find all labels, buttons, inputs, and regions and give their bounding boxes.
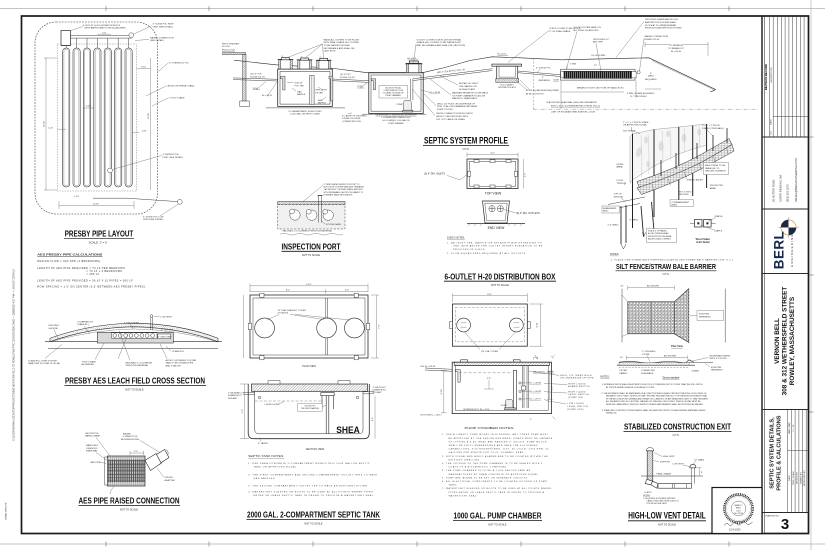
right elevation labels: [530, 371, 555, 401]
svg-text:HIGH VENT: HIGH VENT: [663, 456, 676, 458]
svg-text:TANK.: TANK.: [449, 484, 458, 487]
outlet stub: [363, 392, 374, 394]
svg-text:SCALE: 1" = 5': SCALE: 1" = 5': [89, 241, 108, 245]
svg-text:NOTES: NOTES: [610, 253, 619, 256]
leach field sand outline: [561, 69, 636, 80]
sand box: [278, 205, 345, 229]
fabric trench note box: [647, 229, 677, 243]
randomly oriented fiber mat callout: [86, 444, 99, 453]
svg-text:SECUREABLE AND SHALL BE: SECUREABLE AND SHALL BE: [324, 47, 355, 50]
svg-text:VENT (SEE DETAIL): VENT (SEE DETAIL): [153, 25, 174, 28]
svg-text:2" MIN: 2" MIN: [570, 63, 577, 65]
vent riser small box: [158, 334, 171, 339]
svg-text:1.00': 1.00': [48, 127, 53, 129]
presby pipes (7 laterals): [63, 48, 133, 187]
chamber inlet pipe: [425, 368, 452, 371]
svg-text:6" MIN COVER: 6" MIN COVER: [124, 322, 139, 324]
exit plan pad: [628, 302, 675, 334]
svg-text:4'-10": 4'-10": [441, 389, 443, 395]
svg-text:STAPLE: STAPLE: [715, 215, 724, 218]
svg-text:NOT TO SCALE: NOT TO SCALE: [658, 523, 677, 526]
tank internal labels: [295, 83, 328, 105]
svg-text:35.00': 35.00': [44, 120, 46, 126]
svg-text:4.50': 4.50': [86, 106, 91, 108]
project name block: [762, 409, 809, 411]
groundwater note: [546, 101, 600, 107]
svg-text:NOT TO SCALE: NOT TO SCALE: [491, 284, 510, 287]
svg-text:N.T.S.: N.T.S.: [463, 148, 470, 151]
corrugated pipe body: [108, 456, 146, 486]
vent notes: [643, 495, 680, 505]
svg-text:LOW LIQUID: LOW LIQUID: [567, 403, 584, 405]
callout low vent: [143, 216, 164, 221]
svg-text:VERNON BELL: VERNON BELL: [774, 318, 781, 364]
svg-text:6" LAYER OF CRUSHED: 6" LAYER OF CRUSHED: [342, 114, 367, 117]
corner small dims: [551, 355, 556, 420]
section vent circles: [258, 396, 261, 399]
high vent pipe: [647, 451, 653, 483]
drawing number block: [762, 512, 809, 514]
svg-text:AES PIPE: AES PIPE: [91, 461, 102, 464]
callout raised connection: [150, 36, 174, 42]
svg-text:4" EMBANKMENT: 4" EMBANKMENT: [671, 201, 690, 204]
svg-text:SAND PER 310 CMR 15.240 (A): SAND PER 310 CMR 15.240 (A): [28, 362, 60, 365]
plan knockout tabs: [248, 293, 370, 360]
tank outlet tee: [329, 76, 333, 101]
svg-text:EL. = 30.88: EL. = 30.88: [530, 383, 542, 385]
clean fill over system note: [28, 359, 60, 365]
svg-text:GAS: GAS: [297, 90, 302, 93]
field inner dashed boundary: [58, 44, 137, 191]
svg-text:BERL: BERL: [736, 508, 741, 510]
svg-text:ENTER OR LEAVE SEPTIC TANK IN: ENTER OR LEAVE SEPTIC TANK IN ORDER TO P…: [254, 494, 375, 497]
svg-text:LEVEL SWITCH: LEVEL SWITCH: [567, 406, 588, 408]
svg-text:BAFFLE: BAFFLE: [297, 93, 306, 96]
raised connection circle: [637, 71, 640, 74]
svg-text:2. FLOW EQUALIZERS REQUIRED A: 2. FLOW EQUALIZERS REQUIRED AT ALL OUTLE…: [447, 252, 526, 255]
svg-text:SCH40 @2.1%: SCH40 @2.1%: [250, 76, 265, 78]
svg-text:8" (MIN.): 8" (MIN.): [630, 219, 639, 221]
svg-text:10" (MAX): 10" (MAX): [694, 458, 704, 461]
svg-text:ROWLEY, MASSACHUSETTS: ROWLEY, MASSACHUSETTS: [789, 296, 796, 385]
chamber section body: [452, 362, 551, 413]
svg-text:1.5' OF SYSTEM SAND ON: 1.5' OF SYSTEM SAND ON: [574, 26, 602, 29]
bale end faces: [652, 148, 729, 192]
svg-text:PORT (SEE DETAIL): PORT (SEE DETAIL): [163, 156, 184, 159]
tank plan view inner: [253, 298, 365, 355]
buried pipe horizontal: [658, 484, 692, 489]
svg-text:9": 9": [701, 472, 703, 474]
fabric texture blotches: [635, 128, 701, 167]
svg-text:ASTM C33 PRESBY SAND: ASTM C33 PRESBY SAND: [168, 85, 195, 88]
svg-text:FROM SOIL ABSORPTION SYSTEM: FROM SOIL ABSORPTION SYSTEM: [645, 27, 682, 30]
svg-text:W/CLAMP: W/CLAMP: [373, 391, 383, 394]
sheet data sub table: [788, 410, 809, 513]
svg-text:WORK: WORK: [617, 164, 624, 166]
pipe label (5'): [340, 74, 355, 79]
title block left double rule: [761, 16, 763, 534]
svg-text:13'-0": 13'-0": [306, 284, 312, 286]
svg-text:FLOW: FLOW: [617, 180, 624, 182]
svg-text:CLEAN FILL: CLEAN FILL: [172, 350, 185, 353]
astm c33 note: [166, 359, 197, 368]
svg-text:DEC. 2020: DEC. 2020: [789, 422, 791, 433]
crushed stone caption: [342, 114, 367, 123]
svg-text:PROVIDED IN D-BOX.: PROVIDED IN D-BOX.: [453, 249, 486, 251]
svg-text:PRESBY PIPE LAYOUT: PRESBY PIPE LAYOUT: [65, 230, 134, 239]
exit plan left edge road: [622, 289, 628, 343]
callout high vent: [153, 24, 174, 29]
svg-text:GROUND: GROUND: [614, 196, 624, 198]
svg-text:2000 GAL. 2-COMPARTMENT SEPTIC: 2000 GAL. 2-COMPARTMENT SEPTIC TANK: [247, 509, 381, 519]
exit plan right flare: [674, 289, 689, 343]
svg-text:MANUFACTURED BY SHEA CONCRETE: MANUFACTURED BY SHEA CONCRETE OR APPROVE…: [449, 473, 540, 476]
svg-text:NORTH READING, MA: NORTH READING, MA: [779, 175, 783, 202]
fabric fold lines: [641, 126, 700, 178]
tank section interior: [255, 391, 363, 434]
svg-text:DATE: DATE: [770, 119, 773, 125]
svg-text:1.00': 1.00': [142, 130, 147, 132]
svg-text:(MIN.): (MIN.): [671, 205, 677, 207]
svg-text:GRADE. ALL COVERS TO BE WATERT: GRADE. ALL COVERS TO BE WATERTIGHT: [417, 41, 462, 44]
svg-text:2. THE FIRST COMPARTMENT AND: 2. THE FIRST COMPARTMENT AND SECOND COMP…: [248, 474, 377, 477]
svg-text:PLAN VIEW: PLAN VIEW: [302, 365, 316, 368]
inlet stub: [243, 392, 255, 394]
svg-text:NOTES:: NOTES:: [600, 376, 610, 379]
protected area label: [710, 185, 724, 190]
svg-text:3: 3: [781, 516, 789, 533]
svg-text:SCH 40: SCH 40: [295, 83, 303, 85]
title 5 sand note: [82, 360, 97, 366]
svg-text:FABRIC WRAP: FABRIC WRAP: [85, 435, 101, 438]
tank section view slab: [252, 384, 368, 391]
svg-text:CANNOT BE USED WITH D-BOX: CANNOT BE USED WITH D-BOX TO: [647, 499, 680, 502]
svg-text:TO PUMP CHAMBER TO ALLOW: TO PUMP CHAMBER TO ALLOW: [452, 94, 486, 97]
right callout column: install tee: [459, 82, 479, 91]
left dim bracket: [441, 370, 447, 412]
svg-text:ROW SPACING = 1.5' ON CENTER (: ROW SPACING = 1.5' ON CENTER (0.5' BETWE…: [37, 285, 145, 288]
svg-text:PERVIOUS MATERIAL: PERVIOUS MATERIAL: [126, 364, 149, 367]
svg-text:4'-10": 4'-10": [537, 322, 539, 328]
svg-text:▼ ADJUSTED SEASONAL HIGH GROU: ▼ ADJUSTED SEASONAL HIGH GROUNDWATER: [546, 101, 597, 104]
svg-text:SEDIMENT ONTO PUBLIC RIGHTS: SEDIMENT ONTO PUBLIC RIGHTS-OF-WAY. THIS…: [606, 395, 708, 398]
pump: [404, 100, 412, 110]
inspection port tube: [318, 196, 323, 223]
left dimension 35.00': [44, 58, 57, 190]
svg-text:INDEPENDENTLY SLEEVED ACCESS/R: INDEPENDENTLY SLEEVED ACCESS/RISERS: [376, 113, 417, 116]
svg-text:NO.: NO.: [771, 130, 773, 134]
svg-text:DATE: DATE: [788, 475, 791, 481]
svg-text:16.50': 16.50': [93, 203, 99, 205]
svg-text:4" SCH40 PVC HIGH: 4" SCH40 PVC HIGH: [153, 24, 174, 26]
offset adapter segment 1: [145, 454, 162, 471]
work area label: [617, 164, 624, 169]
svg-text:FLOOR: FLOOR: [222, 46, 230, 48]
svg-text:AREA: AREA: [710, 187, 716, 190]
AES pipe row (hatched): [564, 71, 632, 78]
svg-text:2. BOTH VISUAL AND AUDIO ALAR: 2. BOTH VISUAL AND AUDIO ALARMS ARE TO B…: [442, 455, 548, 458]
svg-text:HIGH LIQUID: HIGH LIQUID: [568, 391, 586, 393]
svg-text:1-COMPARTMENT, WATERTIGHT: 1-COMPARTMENT, WATERTIGHT: [381, 116, 411, 119]
ground line: [641, 475, 703, 477]
svg-text:ASTM C-33 PRESBY SYSTEM: ASTM C-33 PRESBY SYSTEM: [166, 359, 197, 362]
electrical note box: [379, 86, 408, 99]
svg-text:STAKED BALES: STAKED BALES: [687, 178, 704, 181]
house foundation wall: [243, 55, 246, 102]
svg-text:EFFLUENT: EFFLUENT: [316, 90, 328, 92]
svg-text:WATERTIGHT SEAL.: WATERTIGHT SEAL.: [449, 494, 478, 497]
svg-text:ISRAEL BERL PE: ISRAEL BERL PE: [5, 502, 8, 520]
d-box end view: [483, 201, 510, 223]
revision record table: [762, 16, 809, 137]
tank center baffle: [310, 76, 315, 105]
svg-text:6" TAPER: 6" TAPER: [258, 442, 268, 445]
ground trench lines: [604, 197, 645, 249]
svg-text:4. WATERTIGHT SLEEVES OR BOOT: 4. WATERTIGHT SLEEVES OR BOOTS TO BE USE…: [248, 491, 373, 494]
svg-text:OUTLET COVER TO BE FLUSH WITH: OUTLET COVER TO BE FLUSH WITH FINAL: [417, 38, 463, 41]
construction exit notes: [602, 383, 709, 415]
svg-text:1. AN INLET TEE, BAFFLE OR SP: 1. AN INLET TEE, BAFFLE OR SPLASH PLATE …: [447, 241, 542, 244]
svg-text:END VIEW: END VIEW: [488, 226, 506, 230]
svg-text:(3) 4" DIA. INLETS: (3) 4" DIA. INLETS: [424, 173, 445, 176]
svg-text:CAPABILITIES: 4/10 HORSEPOWER,: CAPABILITIES: 4/10 HORSEPOWER, 115V, 60 …: [449, 448, 550, 451]
svg-text:BALE TWINE TO BE: BALE TWINE TO BE: [705, 164, 726, 167]
svg-text:1000 GAL. PUMP CHAMBER: 1000 GAL. PUMP CHAMBER: [454, 510, 543, 520]
callout inspection port: [163, 154, 184, 159]
house finished floor label: [222, 43, 240, 51]
svg-text:MAINTAIN NEGATIVE SLOPE BACK: MAINTAIN NEGATIVE SLOPE BACK: [452, 92, 489, 95]
svg-text:INSTALL 90° INLET: INSTALL 90° INLET: [459, 82, 479, 85]
set into ground label: [679, 191, 692, 196]
geotextile wrap callout: [85, 433, 101, 438]
chamber plan inner dashed: [455, 308, 524, 342]
svg-text:LIFT OUT CABLE OR CHAIN: LIFT OUT CABLE OR CHAIN: [436, 118, 465, 121]
fabric wrap bands: [108, 460, 146, 480]
wood stake callout right: [702, 125, 724, 130]
distribution box (plan): [61, 31, 71, 46]
svg-text:ON UNDERSIDE OF PIPE: ON UNDERSIDE OF PIPE: [560, 378, 594, 380]
svg-text:3 PLACES: 3 PLACES: [278, 312, 289, 315]
port callout paragraph: [324, 183, 365, 196]
bale stakes: [661, 128, 727, 176]
svg-text:FILTER: FILTER: [316, 92, 324, 94]
existing pavement label xsec: [711, 367, 723, 372]
crop ticks top: [106, 6, 729, 11]
embankment label left: [602, 206, 620, 213]
svg-text:H-20 LOADING: H-20 LOADING: [500, 83, 514, 86]
house footing: [240, 101, 250, 107]
curved leader from below: [110, 486, 115, 494]
inner mound line: [53, 329, 215, 341]
svg-text:FINAL GRADE: FINAL GRADE: [657, 473, 672, 476]
end view base line: [467, 223, 525, 225]
svg-text:SEPTIC TANK NOTES:: SEPTIC TANK NOTES:: [248, 455, 284, 458]
svg-text:AREA: AREA: [617, 166, 623, 169]
svg-text:1" x 1" x 2' WOOD: 1" x 1" x 2' WOOD: [702, 125, 720, 127]
svg-text:RAISE ALL COVERS TO BE FLUSH: RAISE ALL COVERS TO BE FLUSH: [324, 38, 360, 41]
svg-text:GEOTEXTILE: GEOTEXTILE: [85, 433, 99, 435]
svg-text:3. STABILIZED CONSTRUCTION: 3. STABILIZED CONSTRUCTION ENTRANCE SHAL…: [602, 409, 706, 412]
svg-text:AS SHOWN: AS SHOWN: [647, 285, 659, 288]
svg-text:DISTRIBUTION BOX: DISTRIBUTION BOX: [498, 87, 517, 89]
provide grade callout: [645, 18, 682, 29]
svg-text:ENGINEERING: ENGINEERING: [790, 233, 794, 267]
house floor slab: [223, 53, 246, 55]
svg-text:FROM PROTECTED AREA: FROM PROTECTED AREA: [648, 235, 672, 238]
field outer dashed boundary: [35, 22, 158, 214]
svg-text:(PUMP ON): (PUMP ON): [568, 397, 583, 399]
svg-text:1.00': 1.00': [74, 196, 79, 198]
svg-text:CAP WITHIN 3" OF FINAL GRADE.: CAP WITHIN 3" OF FINAL GRADE. AIRTIGHT: [324, 188, 364, 191]
limit of excavation line: [533, 108, 759, 110]
svg-text:EXISTING: EXISTING: [49, 325, 60, 327]
svg-text:DRAWING NO.: DRAWING NO.: [765, 515, 780, 518]
field end connectors: [561, 72, 564, 78]
svg-text:1. USE A LIBERTY PUMP MODEL L: 1. USE A LIBERTY PUMP MODEL LE40 SERIES.…: [442, 433, 549, 436]
svg-text:5'-2": 5'-2": [552, 386, 554, 391]
svg-text:2,000 GALLON SEPTIC TANK: 2,000 GALLON SEPTIC TANK: [290, 113, 320, 116]
offset adapter callout: [165, 477, 176, 482]
discharge pipe to d-box: [413, 69, 493, 81]
svg-text:NOT TO SCALE: NOT TO SCALE: [488, 523, 507, 526]
svg-text:12-8-2020: 12-8-2020: [729, 529, 741, 532]
right callout: union connection: [436, 113, 473, 121]
svg-text:STONE: STONE: [642, 354, 650, 356]
tank to chamber pipe: [332, 79, 369, 82]
svg-text:INVERT=37.60: INVERT=37.60: [645, 39, 661, 41]
outlet cover callout: [417, 38, 466, 47]
svg-text:GAS BAFFLES.: GAS BAFFLES.: [254, 477, 277, 480]
svg-text:BETWEEN ROWS: BETWEEN ROWS: [121, 439, 140, 441]
svg-text:4" SCH40 PVC LOW: 4" SCH40 PVC LOW: [143, 216, 164, 218]
svg-text:DWG. SCALE: DWG. SCALE: [792, 471, 795, 485]
embankment label boxed: [670, 200, 694, 207]
knockouts top view: [468, 160, 518, 188]
wood stake callout left: [623, 121, 649, 127]
svg-text:AS NEEDED: AS NEEDED: [82, 363, 95, 366]
svg-text:(24" DIA. COVER: (24" DIA. COVER: [481, 350, 499, 353]
svg-text:OF LIFTING A 9.86' HEAD AND PA: OF LIFTING A 9.86' HEAD AND PASSING 2" S…: [449, 440, 547, 443]
svg-text:APPROVED BY: APPROVED BY: [803, 470, 806, 486]
pump chamber body: [369, 73, 423, 114]
mountable berm label: [710, 354, 731, 360]
svg-text:PUMP: PUMP: [397, 104, 404, 106]
svg-text:4" PERFORATED INSPECTION PORT: 4" PERFORATED INSPECTION PORT TO: [324, 183, 360, 186]
svg-text:OR APPROVED EQUAL: OR APPROVED EQUAL: [623, 124, 648, 127]
svg-text:PROVIDED GRADE ABOVE SOIL: PROVIDED GRADE ABOVE SOIL: [645, 18, 679, 21]
raised connection invert callout: [645, 35, 669, 41]
svg-text:TOP VIEW: TOP VIEW: [485, 191, 502, 195]
svg-text:EL.=36.8 MIN.: EL.=36.8 MIN.: [592, 55, 606, 57]
tank caption: [288, 110, 322, 116]
svg-text:33.00': 33.00': [148, 112, 150, 118]
svg-text:WITH PERMEABLE GEOTEXTILE FABR: WITH PERMEABLE GEOTEXTILE FABRIC TO: [324, 191, 364, 194]
ground grade line: [234, 57, 716, 91]
svg-text:1. REQUIRED IF BY-PASS VE: 1. REQUIRED IF BY-PASS VENTING: [643, 497, 676, 500]
svg-text:BREAKOUT ELEV. (BOTTOM OF SAND: BREAKOUT ELEV. (BOTTOM OF SAND) 35.80: [577, 87, 624, 90]
svg-text:NATURALLY OCCURRING PERVIOUS M: NATURALLY OCCURRING PERVIOUS MATERIAL: [282, 230, 333, 233]
svg-text:1. ENTRANCE WIDTH SHALL B: 1. ENTRANCE WIDTH SHALL BE A TWENTY-FIVE…: [602, 383, 703, 386]
raise covers callout: [324, 38, 360, 52]
svg-text:UNION CONNECTION WITH CHECK: UNION CONNECTION WITH CHECK: [436, 113, 473, 115]
svg-text:BE APPROVED BY THE DESIGN ENGI: BE APPROVED BY THE DESIGN ENGINEER. PUMP…: [449, 437, 553, 440]
svg-text:2'-0" (MIN.): 2'-0" (MIN.): [608, 224, 619, 226]
distribution box in profile: [492, 64, 522, 82]
callout d-box: [83, 25, 126, 30]
svg-text:WITH FINAL GRADE. ALL COVERS: WITH FINAL GRADE. ALL COVERS: [324, 41, 360, 44]
svg-text:D-BOX NOTES:: D-BOX NOTES:: [447, 237, 465, 240]
svg-text:RAISED CONNECTION: RAISED CONNECTION: [645, 35, 669, 38]
svg-text:COATS OF A BITUMINISTIC COMPOU: COATS OF A BITUMINISTIC COMPOUND.: [449, 466, 508, 469]
septic tank notes: [248, 462, 377, 497]
svg-text:3. THE SECOND COMPARTMENT OUT: 3. THE SECOND COMPARTMENT OUTLET TEE TO …: [248, 484, 369, 487]
svg-text:SUPPORT: SUPPORT: [660, 462, 671, 464]
paper trim line bottom: [0, 543, 825, 545]
svg-text:PIPE TO ALLOW DRAINAGE BETWEEN: PIPE TO ALLOW DRAINAGE BETWEEN: [437, 105, 478, 108]
chamber section slab: [454, 362, 549, 365]
paper trim line right: [810, 0, 812, 550]
svg-text:5. PUMP AND ALARM TO BE SET O: 5. PUMP AND ALARM TO BE SET ON SEPARATE …: [442, 476, 529, 479]
svg-text:ISRAEL@BERLENGINEERING.COM: ISRAEL@BERLENGINEERING.COM: [794, 158, 798, 202]
svg-text:5.50': 5.50': [141, 66, 146, 68]
svg-text:12" LOAM & SEED: 12" LOAM & SEED: [157, 336, 172, 339]
bale twine note box: [704, 163, 729, 175]
svg-text:NOT TO SCALE: NOT TO SCALE: [302, 254, 321, 257]
pipe strip: [112, 333, 158, 338]
svg-text:PUMP CHAMBER: PUMP CHAMBER: [388, 122, 404, 125]
svg-text:GALLONS PER MINUTE FOR 23.01': GALLONS PER MINUTE FOR 23.01' DYNAMIC HE…: [449, 451, 525, 454]
svg-text:PLACE 4" OF FABRIC: PLACE 4" OF FABRIC: [648, 230, 668, 233]
svg-text:(MIN): (MIN): [648, 76, 654, 78]
right dim bracket: [547, 371, 553, 399]
svg-text:PROPOSED 12": PROPOSED 12": [593, 39, 609, 41]
svg-text:AES PIPE RAISED CONNECTION: AES PIPE RAISED CONNECTION: [79, 495, 180, 505]
svg-text:CLEAN FILL OVER SYSTEM: CLEAN FILL OVER SYSTEM: [28, 359, 57, 362]
chamber plan tabs: [450, 322, 531, 329]
svg-text:TITLE 5 SAND: TITLE 5 SAND: [82, 360, 97, 363]
9in dim: [697, 468, 702, 476]
svg-text:STONE AS CONDITIONS DEMAND: STONE AS CONDITIONS DEMAND AND REPAIR OR…: [606, 397, 709, 400]
crushed stone base line under tank+chamber: [266, 108, 426, 114]
svg-text:EXISTING: EXISTING: [699, 314, 710, 316]
svg-text:SUBGRADE: SUBGRADE: [641, 372, 654, 375]
svg-text:ELIMINATE SAND INFILTRATION: ELIMINATE SAND INFILTRATION: [324, 193, 353, 196]
svg-text:7. WATERTIGHT SLEEVES OR BOOT: 7. WATERTIGHT SLEEVES OR BOOTS TO BE USE…: [442, 487, 552, 490]
chamber plan circles: [457, 318, 524, 332]
svg-text:4" SCH40 PVC: 4" SCH40 PVC: [536, 68, 551, 70]
svg-text:8'-2": 8'-2": [286, 289, 291, 291]
svg-text:COMPACTED: COMPACTED: [641, 369, 655, 372]
svg-text:SYSTEM SAND: SYSTEM SAND: [326, 223, 342, 226]
svg-text:2" x 2" x 4' WOOD STAKE: 2" x 2" x 4' WOOD STAKE: [623, 121, 649, 124]
svg-text:STAKE (2 PER BALE): STAKE (2 PER BALE): [702, 127, 724, 130]
float switches: [519, 382, 521, 400]
svg-text:COMPACTED SOIL: COMPACTED SOIL: [342, 120, 362, 123]
svg-text:8' MIN. (LOAM) REQUIRED: 8' MIN. (LOAM) REQUIRED: [627, 92, 655, 95]
svg-text:ABSORPTION SYSTEM SHALL: ABSORPTION SYSTEM SHALL: [645, 21, 677, 24]
svg-text:EL.= 33.95: EL.= 33.95: [430, 92, 441, 94]
svg-text:EL.=35.45: EL.=35.45: [671, 51, 682, 53]
svg-text:ADAPTER: ADAPTER: [165, 479, 176, 482]
svg-text:= 280 LF: = 280 LF: [86, 273, 99, 276]
svg-text:ISRAEL T.: ISRAEL T.: [734, 504, 743, 507]
svg-text:6. ALL ELECTRICAL COMPONENTS: 6. ALL ELECTRICAL COMPONENTS TO BE LOCAT…: [442, 480, 547, 483]
proposed AES pipe callout: [593, 39, 609, 44]
svg-text:WITH BAFFLE AND FLOW EQUALIZER: WITH BAFFLE AND FLOW EQUALIZERS: [85, 27, 127, 30]
svg-text:SILT FENCE/STRAW BALE BARRIER: SILT FENCE/STRAW BALE BARRIER: [616, 264, 716, 271]
svg-text:LEVEL SWITCH: LEVEL SWITCH: [568, 394, 589, 396]
svg-text:TOP OF: TOP OF: [614, 194, 623, 196]
